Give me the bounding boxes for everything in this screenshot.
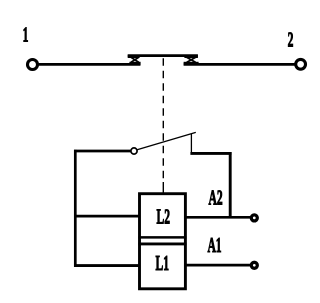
- wire A1: [185, 264, 250, 267]
- wire L1 left pin: [74, 264, 139, 267]
- svg-text:L1: L1: [156, 252, 169, 276]
- wire terminal1 to left contact: [39, 63, 141, 66]
- wire right contact to terminal 2: [184, 63, 296, 66]
- wire to switch pivot: [74, 150, 131, 153]
- A1 label: [207, 233, 221, 257]
- coil L1 label: [156, 252, 169, 276]
- switch pivot contact: [131, 148, 137, 154]
- terminal A2: [251, 215, 257, 221]
- svg-text:A1: A1: [207, 233, 221, 257]
- switch lever: [137, 132, 196, 149]
- coil L2 label: [157, 205, 170, 229]
- switch fixed contact: [190, 134, 192, 153]
- terminal 2 label: [288, 28, 294, 52]
- left contact point X: [131, 57, 139, 62]
- svg-text:L2: L2: [157, 205, 170, 229]
- right contact point X: [187, 57, 196, 62]
- left fixed contact bottom bar: [129, 62, 140, 65]
- mechanical link (dashed): [162, 58, 164, 178]
- svg-text:1: 1: [23, 23, 29, 47]
- svg-text:A2: A2: [209, 186, 223, 210]
- A2 label: [209, 186, 223, 210]
- wire A2: [185, 216, 250, 219]
- terminal 2: [296, 59, 306, 69]
- relay coil box outline: [140, 194, 186, 289]
- svg-text:2: 2: [288, 28, 294, 52]
- terminal 1: [28, 60, 38, 70]
- terminal 1 label: [23, 23, 29, 47]
- wire switch to right vertical: [190, 152, 231, 155]
- left fixed contact top bar: [128, 55, 140, 58]
- moving bridge contact bar: [128, 54, 198, 57]
- wire right vertical to A2 node: [229, 152, 232, 218]
- right fixed contact top bar: [184, 55, 198, 58]
- wire L2 left pin: [75, 215, 139, 218]
- terminal A1: [251, 262, 257, 268]
- wire left vertical bus: [74, 150, 77, 267]
- right fixed contact bottom bar: [184, 62, 199, 65]
- coil divider lower line: [138, 242, 186, 245]
- coil divider upper line: [138, 236, 186, 239]
